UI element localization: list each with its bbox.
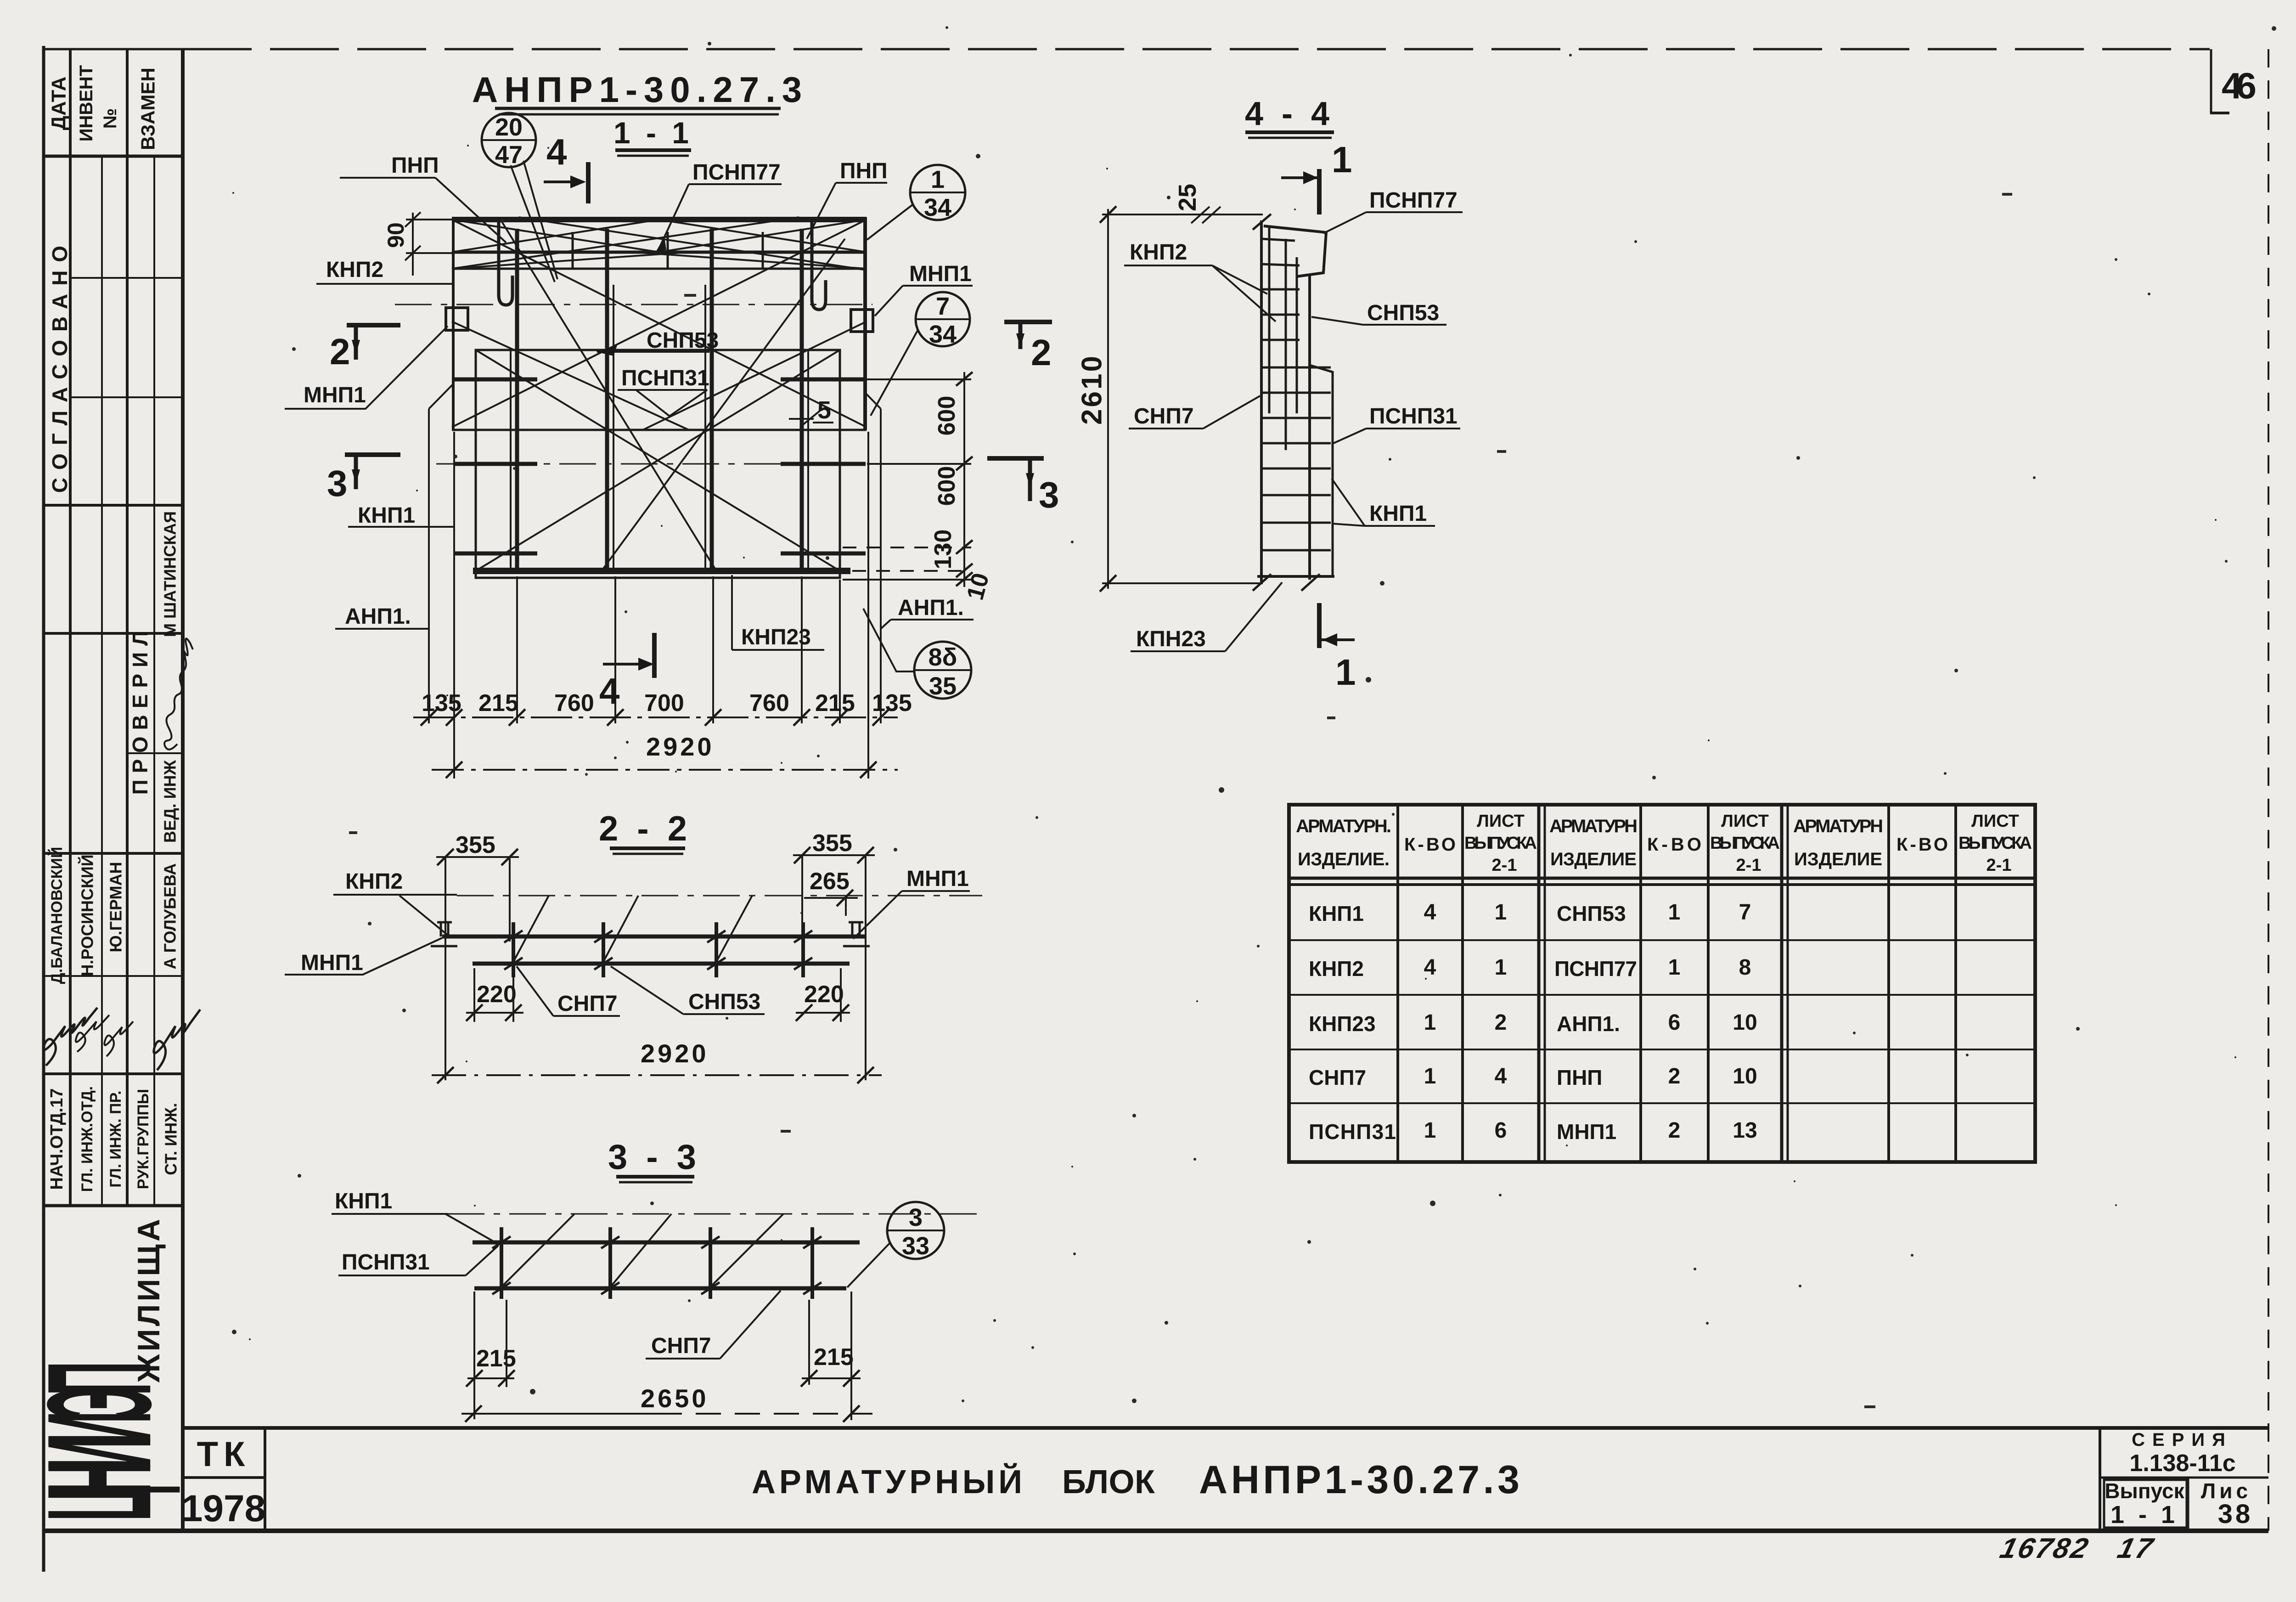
companion thin bar 2: [613, 285, 614, 570]
svg-text:ПСНП77: ПСНП77: [1369, 188, 1458, 213]
svg-text:760: 760: [749, 690, 789, 716]
ladder bottom rung: [1257, 575, 1334, 578]
svg-text:АРМАТУРНЫЙ: АРМАТУРНЫЙ: [752, 1463, 1029, 1500]
top flap ПСНП77: [1264, 226, 1326, 276]
svg-text:ЛИСТ: ЛИСТ: [1477, 812, 1525, 831]
leader from circle 1/34: [867, 205, 912, 240]
svg-text:220: 220: [477, 981, 517, 1008]
svg-text:1: 1: [1335, 652, 1356, 693]
callout circle 8б/35: [914, 642, 971, 699]
svg-text:1: 1: [1332, 139, 1352, 180]
bottom extension wing left: [428, 629, 430, 723]
sidebar row line y1100: [44, 504, 183, 507]
svg-text:ПСНП31: ПСНП31: [1309, 1120, 1396, 1144]
section mark Т2 right: [1004, 320, 1052, 324]
svg-text:КПН23: КПН23: [1136, 627, 1206, 651]
svg-text:СОГЛАСОВАНО: СОГЛАСОВАНО: [48, 237, 72, 493]
section mark 3 left: [345, 452, 400, 457]
sidebar row line y2125: [44, 975, 183, 977]
svg-text:СЕРИЯ: СЕРИЯ: [2132, 1430, 2233, 1450]
svg-text:НАЧ.ОТД.17: НАЧ.ОТД.17: [47, 1089, 67, 1190]
callout circle 7/34: [916, 292, 970, 346]
svg-text:ГЛ. ИНЖ. ПР.: ГЛ. ИНЖ. ПР.: [107, 1090, 124, 1187]
subtitle underline double: [615, 148, 691, 152]
sidebar divider col2/col3: [126, 49, 129, 1206]
ladder rung 11: [1261, 494, 1331, 496]
leader from circle 3/33: [847, 1242, 891, 1287]
svg-text:2: 2: [1668, 1118, 1681, 1143]
svg-text:СНП53: СНП53: [1367, 301, 1439, 325]
slab top band diagonal w1: [452, 220, 659, 252]
page number corner bracket: [2210, 49, 2212, 113]
svg-text:МНП1: МНП1: [1557, 1120, 1616, 1144]
svg-text:355: 355: [812, 830, 852, 857]
svg-text:760: 760: [554, 690, 594, 716]
panel diagonal 3: [501, 220, 716, 571]
svg-text:ЛИСТ: ЛИСТ: [1721, 812, 1769, 831]
svg-text:АРМАТУРН.: АРМАТУРН.: [1296, 816, 1391, 836]
leader to post1 from centerline: [513, 896, 549, 962]
bottom chord 3-3: [474, 1286, 846, 1291]
svg-text:215: 215: [478, 690, 518, 716]
sidebar right edge (drawing frame left): [181, 49, 185, 1531]
svg-text:Выпуск: Выпуск: [2105, 1479, 2184, 1503]
slab diagonal brace 4: [519, 217, 867, 270]
side bar right top: [781, 378, 866, 382]
slab diagonal brace 5: [452, 322, 689, 430]
svg-text:КНП2: КНП2: [326, 258, 383, 282]
svg-text:ВЫПУСКА: ВЫПУСКА: [1464, 834, 1537, 853]
svg-text:ЛИСТ: ЛИСТ: [1971, 812, 2019, 831]
leader from circle 8б/35: [863, 609, 914, 671]
svg-text:1: 1: [1424, 1010, 1436, 1035]
svg-text:1: 1: [1495, 955, 1507, 980]
anchor box МНП1 left: [446, 308, 468, 330]
post 2 (3-3): [608, 1227, 612, 1299]
svg-text:135: 135: [422, 690, 461, 716]
centerline dash (3-3): [448, 1213, 980, 1215]
side bar left bottom: [455, 552, 537, 556]
svg-text:355: 355: [456, 832, 495, 858]
svg-text:8δ: 8δ: [929, 643, 957, 671]
svg-text:АНП1.: АНП1.: [1557, 1012, 1620, 1036]
svg-text:2-1: 2-1: [1736, 856, 1761, 875]
slab band diagonal lower w6: [634, 252, 867, 269]
svg-text:АНП1.: АНП1.: [345, 604, 411, 629]
svg-text:1: 1: [1495, 900, 1507, 925]
mid flap ПСНП31: [1310, 365, 1333, 575]
ladder rung 8: [1261, 417, 1331, 419]
top chord 3-3: [473, 1241, 860, 1245]
callout circle 20/47: [482, 113, 536, 167]
sidebar row line y865: [70, 396, 183, 398]
logo ЦНИИЭП: [16, 1361, 182, 1521]
svg-text:Н.РОСИНСКИЙ: Н.РОСИНСКИЙ: [78, 854, 97, 976]
wing outline right: [880, 409, 882, 629]
table header bottom double line: [1289, 877, 2035, 880]
svg-text:1: 1: [931, 166, 945, 193]
svg-text:8: 8: [1739, 955, 1751, 980]
svg-text:КНП1: КНП1: [1309, 902, 1364, 925]
svg-text:МНП1: МНП1: [906, 867, 969, 891]
svg-text:КНП23: КНП23: [741, 625, 811, 649]
section mark 1 bottom: [1317, 603, 1322, 648]
svg-text:34: 34: [924, 194, 951, 221]
svg-text:Ю.ГЕРМАН: Ю.ГЕРМАН: [107, 862, 125, 952]
companion thin bar 1: [510, 349, 512, 570]
frame right border (dashed): [2268, 49, 2269, 1531]
side bar left mid: [455, 462, 537, 466]
svg-text:ИЗДЕЛИЕ: ИЗДЕЛИЕ: [1794, 849, 1882, 869]
mesh stub 2: [667, 232, 669, 268]
ladder rung 3: [1261, 288, 1300, 291]
ladder bottom ticks: [1253, 574, 1271, 591]
right dim extension y1192 dashed: [843, 547, 971, 548]
main rebar bar 1: [515, 229, 519, 574]
svg-text:47: 47: [495, 141, 523, 169]
svg-text:АНПР1-30.27.3: АНПР1-30.27.3: [1199, 1458, 1524, 1502]
svg-text:СНП7: СНП7: [1309, 1066, 1366, 1089]
slab top band diagonal w2: [659, 220, 867, 252]
panel mid dash line: [436, 463, 895, 465]
svg-text:10: 10: [1733, 1010, 1757, 1035]
ladder rung 1: [1261, 239, 1295, 241]
top chord 2-2: [442, 935, 867, 939]
sidebar signature шатинская: [164, 638, 193, 749]
sidebar row line y1858: [44, 852, 183, 855]
svg-text:Д.БАЛАНОВСКИЙ: Д.БАЛАНОВСКИЙ: [48, 847, 66, 984]
svg-text:4: 4: [1424, 955, 1436, 980]
ТК box divider vertical: [264, 1428, 266, 1531]
svg-text:М ШАТИНСКАЯ: М ШАТИНСКАЯ: [161, 511, 180, 637]
ladder rung 7: [1261, 392, 1331, 394]
svg-text:МНП1: МНП1: [304, 383, 366, 407]
slab bottom edge: [452, 429, 867, 431]
hanger bar left with hook: [499, 220, 512, 305]
scan speckle noise: [232, 26, 2276, 1408]
bottom extension wing right: [880, 629, 882, 723]
leader to post2: [603, 896, 638, 962]
post 1 (2-2): [512, 922, 515, 977]
svg-text:ВЕД. ИНЖ: ВЕД. ИНЖ: [161, 760, 180, 843]
dim chain line bottom: [413, 716, 898, 718]
svg-text:13: 13: [1733, 1118, 1757, 1143]
section mark 2 left: [347, 323, 400, 327]
sidebar signature row squiggle 2: [76, 1015, 109, 1052]
svg-text:АНПР1-30.27.3: АНПР1-30.27.3: [472, 69, 808, 110]
svg-text:БЛОК: БЛОК: [1062, 1464, 1162, 1500]
sidebar header bottom line: [44, 155, 183, 158]
post 4 (3-3): [810, 1227, 814, 1299]
ladder right rail: [1308, 275, 1311, 580]
svg-text:1978: 1978: [182, 1488, 265, 1529]
svg-text:1: 1: [1424, 1118, 1436, 1143]
svg-text:4: 4: [1495, 1064, 1507, 1089]
panel outline 1-1: [476, 350, 840, 578]
leader from circle 20/47: [511, 165, 555, 282]
bottom extension from slab left: [453, 432, 455, 778]
sidebar row line y2338: [44, 1072, 183, 1075]
svg-text:10: 10: [1733, 1064, 1757, 1089]
svg-text:КНП23: КНП23: [1309, 1012, 1376, 1036]
chain ticks bottom: [421, 709, 437, 726]
svg-text:ПСНП77: ПСНП77: [692, 160, 781, 185]
sidebar signature row squiggle 5: [154, 1010, 200, 1070]
svg-text:700: 700: [644, 690, 684, 716]
sidebar divider col2 thin: [101, 156, 103, 1206]
leader to post2 (3-3): [611, 1214, 671, 1286]
svg-text:4 - 4: 4 - 4: [1245, 96, 1334, 132]
sidebar signature row squiggle 1: [43, 1008, 97, 1066]
svg-text:МНП1: МНП1: [301, 951, 363, 975]
ladder rung 10: [1261, 468, 1331, 470]
svg-text:К-ВО: К-ВО: [1896, 835, 1948, 855]
svg-text:ПСНП31: ПСНП31: [621, 366, 709, 390]
wing outline left: [428, 409, 430, 629]
серия divider line: [2100, 1477, 2268, 1479]
svg-text:2920: 2920: [641, 1039, 709, 1068]
companion thin bar 4: [807, 349, 809, 570]
svg-text:А ГОЛУБЕВА: А ГОЛУБЕВА: [161, 863, 180, 970]
sidebar divider col4 thin: [153, 156, 155, 1206]
table row lines: [1289, 939, 2035, 941]
svg-text:КНП2: КНП2: [1309, 957, 1364, 981]
ladder rung 6: [1261, 367, 1331, 369]
ladder rung 5: [1261, 339, 1300, 341]
svg-text:ПРОВЕРИЛ: ПРОВЕРИЛ: [128, 625, 152, 795]
slab diagonal brace 6: [643, 322, 867, 430]
sidebar row line y1379: [44, 632, 183, 635]
svg-text:КНП2: КНП2: [1130, 240, 1187, 265]
svg-text:1: 1: [1668, 955, 1681, 980]
svg-text:38: 38: [2218, 1499, 2253, 1529]
bottom extension from panel bars: [516, 576, 518, 723]
dim 2920 line: [432, 769, 898, 771]
svg-text:СНП53: СНП53: [688, 990, 760, 1014]
svg-text:ИНВЕНТ: ИНВЕНТ: [76, 65, 96, 142]
mesh stub 3: [762, 232, 764, 268]
svg-text:3: 3: [327, 463, 348, 504]
svg-text:16782 17: 16782 17: [1997, 1533, 2158, 1564]
svg-text:3: 3: [1039, 474, 1059, 515]
centerline dash: [457, 895, 982, 897]
companion thin bar 3: [704, 285, 706, 570]
sidebar divider col1/col2: [69, 49, 72, 1206]
svg-text:ВЫПУСКА: ВЫПУСКА: [1958, 834, 2032, 853]
rebar row line B: [452, 268, 867, 270]
svg-text:2-1: 2-1: [1986, 856, 2012, 875]
panel diagonal 4: [602, 239, 845, 571]
svg-text:КНП1: КНП1: [335, 1189, 392, 1213]
bottom extension from slab right: [867, 432, 869, 778]
frame top border (dashed): [44, 48, 183, 51]
svg-text:ЦНИИЭП: ЦНИИЭП: [16, 1361, 182, 1521]
post 4 (2-2): [801, 922, 805, 977]
ladder rung 9: [1261, 442, 1331, 445]
svg-text:130: 130: [930, 530, 957, 570]
slab diagonal brace 1: [452, 220, 867, 427]
callout circle 1/34: [910, 165, 965, 220]
ladder rung 13: [1261, 549, 1331, 552]
svg-text:4: 4: [599, 671, 620, 711]
slab diagonal brace 3: [452, 217, 799, 269]
svg-text:ТК: ТК: [197, 1435, 251, 1474]
svg-text:ПНП: ПНП: [1557, 1066, 1602, 1089]
svg-text:ГЛ. ИНЖ.ОТД.: ГЛ. ИНЖ.ОТД.: [79, 1086, 96, 1192]
svg-text:РУК.ГРУППЫ: РУК.ГРУППЫ: [135, 1089, 152, 1189]
sidebar row line y2625: [44, 1204, 183, 1207]
svg-text:СНП7: СНП7: [651, 1334, 711, 1358]
svg-text:АНП1.: АНП1.: [898, 596, 964, 620]
svg-text:20: 20: [495, 113, 523, 141]
slab outline 1-1 top edge: [452, 217, 867, 222]
svg-text:215: 215: [815, 690, 855, 716]
svg-text:МНП1: МНП1: [909, 262, 972, 286]
post 1 (3-3): [500, 1227, 503, 1299]
svg-text:34: 34: [929, 321, 957, 348]
svg-text:ПСНП77: ПСНП77: [1554, 957, 1637, 981]
right dim extension y1010: [867, 463, 971, 465]
svg-text:2: 2: [330, 331, 350, 372]
svg-text:265: 265: [810, 868, 850, 895]
callout circle 3/33: [887, 1202, 944, 1259]
main rebar bar 3: [710, 229, 714, 574]
slab top band diagonal w4: [659, 220, 867, 252]
svg-text:2-1: 2-1: [1492, 856, 1517, 875]
ladder top tick: [1253, 214, 1271, 230]
svg-text:№: №: [100, 108, 120, 129]
svg-text:2 - 2: 2 - 2: [599, 809, 692, 848]
sidebar signature row squiggle 3: [104, 1021, 133, 1056]
sidebar row line y605: [70, 277, 183, 279]
sidebar row line y1640: [127, 752, 183, 754]
svg-text:3 - 3: 3 - 3: [608, 1138, 701, 1177]
svg-text:СНП7: СНП7: [1134, 404, 1194, 429]
rebar row line A: [452, 251, 867, 254]
leader from circle 7/34: [871, 331, 917, 416]
svg-text:215: 215: [476, 1345, 516, 1372]
ladder rung 2: [1261, 264, 1300, 265]
svg-text:6: 6: [1668, 1010, 1681, 1035]
chain ticks right: [956, 372, 973, 386]
slab top band diagonal w3: [452, 220, 659, 252]
svg-text:2: 2: [1668, 1064, 1681, 1089]
main rebar bar 4: [800, 229, 804, 574]
side bar right bottom: [781, 552, 866, 556]
frame left border: [42, 46, 45, 1572]
лис divider: [2187, 1478, 2189, 1531]
slab left edge: [452, 217, 455, 430]
dim 2610 extension bottom: [1102, 582, 1263, 584]
dim 2610 vertical: [1107, 209, 1109, 589]
right dim extension y826: [867, 378, 971, 380]
svg-text:К-ВО: К-ВО: [1647, 835, 1701, 855]
end hook marks right: [849, 922, 863, 936]
svg-text:33: 33: [902, 1232, 929, 1260]
svg-text:КНП1: КНП1: [1369, 502, 1427, 526]
svg-text:ПСНП31: ПСНП31: [1369, 404, 1458, 429]
svg-text:1: 1: [1668, 900, 1681, 925]
main rebar bar 2: [605, 229, 609, 574]
серия box divider: [2099, 1428, 2101, 1531]
svg-text:2: 2: [1031, 332, 1052, 373]
svg-text:220: 220: [804, 981, 844, 1008]
ladder rung 12: [1261, 522, 1331, 524]
post 2 (2-2): [602, 922, 605, 977]
ladder inner bar 2: [1285, 239, 1287, 450]
slab band diagonal lower w5: [452, 252, 689, 269]
end hook marks left: [437, 922, 452, 936]
svg-text:СНП7: СНП7: [557, 992, 618, 1016]
dim 2610 extension top: [1102, 214, 1263, 215]
hanger bar right with hook: [812, 220, 826, 310]
svg-text:ДАТА: ДАТА: [48, 77, 70, 130]
side bar left top: [455, 378, 537, 382]
panel diagonal 2: [476, 350, 840, 571]
svg-text:1 - 1: 1 - 1: [2110, 1501, 2178, 1529]
title band top line: [183, 1426, 2268, 1430]
post 3 (2-2): [715, 922, 718, 977]
bottom chord 2-2: [473, 962, 850, 966]
svg-text:2920: 2920: [646, 732, 715, 761]
svg-text:600: 600: [934, 466, 960, 506]
panel diagonal 1: [476, 350, 840, 571]
svg-text:7: 7: [1739, 900, 1751, 925]
svg-text:3: 3: [909, 1204, 923, 1231]
svg-text:АРМАТУРН: АРМАТУРН: [1549, 816, 1638, 836]
svg-text:АРМАТУРН: АРМАТУРН: [1793, 816, 1883, 836]
svg-text:ПСНП31: ПСНП31: [342, 1250, 430, 1275]
panel bottom bold bar КНП23: [473, 568, 850, 574]
svg-text:600: 600: [934, 396, 960, 436]
bottom extension from panel right: [839, 580, 841, 723]
svg-text:СНП53: СНП53: [647, 328, 719, 353]
right dim extension y1243 dashed: [852, 570, 971, 572]
svg-text:ПНП: ПНП: [840, 159, 888, 183]
side bar right mid: [781, 462, 866, 466]
svg-text:25: 25: [1174, 184, 1201, 211]
mesh stub 1: [572, 232, 574, 268]
svg-text:4: 4: [546, 131, 567, 172]
post 3 (3-3): [709, 1227, 712, 1299]
svg-text:КНП2: КНП2: [345, 869, 403, 894]
leader КНП1 to post1: [445, 1214, 494, 1241]
leader to post3 (3-3): [711, 1214, 783, 1286]
svg-text:35: 35: [929, 672, 957, 700]
svg-text:1: 1: [1424, 1064, 1436, 1089]
svg-text:2: 2: [1495, 1010, 1507, 1035]
svg-text:46: 46: [2222, 65, 2257, 106]
leader to post1 (3-3): [502, 1214, 574, 1286]
anchor box МНП1 right: [851, 310, 873, 332]
svg-text:ВЫПУСКА: ВЫПУСКА: [1710, 834, 1780, 853]
svg-text:ПНП: ПНП: [391, 153, 439, 178]
svg-text:1 - 1: 1 - 1: [613, 116, 692, 150]
svg-text:К-ВО: К-ВО: [1404, 835, 1456, 855]
slab diagonal brace 2: [452, 220, 867, 427]
svg-text:2610: 2610: [1076, 354, 1108, 425]
table outline: [1289, 805, 2035, 1162]
right dim extension y1262: [843, 579, 971, 581]
table column lines: [1396, 805, 1399, 1162]
ТК box divider horizontal: [183, 1476, 265, 1479]
axis dash line: [395, 304, 872, 305]
title band bottom line: [44, 1529, 2268, 1533]
leader to post1: [400, 896, 448, 935]
svg-text:2650: 2650: [641, 1384, 709, 1413]
svg-text:КНП1: КНП1: [358, 503, 415, 528]
ladder left rail: [1260, 220, 1263, 583]
